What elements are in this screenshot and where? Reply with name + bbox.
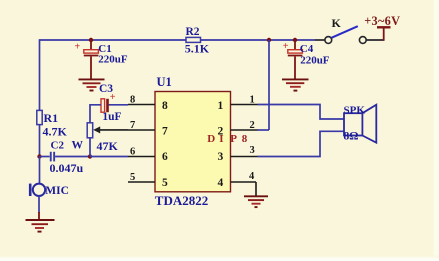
svg-text:1: 1: [250, 94, 255, 105]
svg-text:5: 5: [162, 177, 168, 189]
U1 pin 7 stub: [128, 120, 155, 131]
node C4 tap: [293, 38, 297, 42]
wire MIC to ground: [38, 196, 40, 213]
U1 pin 8 stub: [128, 94, 155, 105]
U1 internal pin numbers left: [162, 100, 168, 189]
svg-text:W: W: [72, 140, 84, 152]
U1 internal pin numbers right: [218, 100, 224, 189]
wire R1 to node C2: [39, 125, 41, 157]
svg-text:8: 8: [130, 94, 135, 105]
U1 pin 1 stub: [231, 94, 258, 105]
svg-text:P: P: [230, 133, 237, 145]
U1 pin 4 stub: [231, 171, 257, 182]
node pot bottom: [88, 154, 92, 158]
wire pin4 to ground: [255, 182, 257, 196]
svg-text:MIC: MIC: [45, 185, 69, 197]
wire pin1 to speaker: [258, 105, 345, 120]
svg-text:5.1K: 5.1K: [185, 41, 210, 55]
svg-text:C2: C2: [51, 139, 65, 151]
node C1 tap: [89, 38, 93, 42]
svg-text:K: K: [332, 16, 342, 30]
svg-text:47K: 47K: [97, 139, 119, 153]
ground below C1: [79, 79, 105, 90]
svg-text:220uF: 220uF: [98, 54, 128, 66]
svg-text:8Ω: 8Ω: [344, 131, 359, 143]
wire C3 to pot top: [90, 105, 101, 123]
capacitor C2: [40, 139, 84, 175]
U1 pin 6 stub: [128, 146, 155, 157]
svg-text:R1: R1: [44, 111, 59, 125]
U1 pin 3 stub: [231, 145, 258, 156]
speaker SPK: [344, 104, 377, 142]
svg-text:R2: R2: [186, 26, 200, 38]
resistor R2: [185, 26, 210, 55]
ground below MIC: [26, 212, 55, 232]
wire left rail: [39, 39, 41, 110]
svg-text:6: 6: [162, 151, 168, 163]
wire top rail right of R2: [201, 39, 316, 41]
svg-text:+: +: [75, 42, 81, 53]
svg-text:SPK: SPK: [344, 104, 366, 116]
wire pin2 horizontal: [258, 129, 270, 131]
svg-text:6: 6: [130, 146, 135, 157]
wire top rail left: [40, 39, 187, 41]
svg-text:0.047u: 0.047u: [50, 161, 84, 175]
svg-text:+3~6V: +3~6V: [364, 14, 400, 28]
switch K: [325, 16, 366, 43]
microphone MIC: [29, 184, 69, 198]
capacitor C4: [283, 40, 330, 79]
svg-text:5: 5: [130, 172, 135, 183]
svg-text:C3: C3: [99, 83, 113, 95]
svg-text:C4: C4: [300, 43, 314, 55]
svg-text:8: 8: [162, 100, 168, 112]
wire pin3 to speaker: [258, 131, 345, 156]
svg-text:220uF: 220uF: [300, 54, 330, 66]
svg-text:4: 4: [218, 177, 224, 189]
op-amp U1 TDA2822 body: [155, 75, 231, 208]
U1 pin 2 stub: [231, 120, 258, 131]
node R2 right / pin2 branch: [267, 38, 271, 42]
svg-text:4.7K: 4.7K: [43, 124, 68, 138]
svg-text:3: 3: [250, 145, 255, 156]
resistor R1: [37, 110, 68, 138]
svg-text:8: 8: [242, 133, 248, 145]
U1 label D I P 8: [207, 133, 248, 145]
svg-text:7: 7: [162, 125, 168, 137]
svg-text:2: 2: [218, 125, 224, 137]
capacitor C1: [75, 40, 128, 79]
node at C2 junction: [37, 154, 41, 158]
wire switch to power: [366, 39, 383, 41]
U1 pin 5 stub: [128, 172, 155, 183]
white margin right: [434, 0, 439, 261]
white margin bottom: [0, 256, 439, 261]
svg-text:D: D: [207, 133, 215, 145]
svg-text:1: 1: [218, 100, 224, 112]
ground below pin 4: [244, 196, 268, 207]
power +3~6V: [364, 14, 400, 41]
svg-text:4: 4: [249, 171, 255, 182]
capacitor C3: [99, 83, 128, 123]
svg-text:1uF: 1uF: [102, 111, 121, 123]
svg-text:7: 7: [130, 120, 135, 131]
svg-text:2: 2: [250, 120, 255, 131]
wire node to pin6: [90, 156, 128, 158]
svg-text:TDA2822: TDA2822: [155, 193, 208, 208]
wire C2 to pot node: [55, 156, 90, 158]
ground below C4: [282, 79, 309, 90]
svg-text:U1: U1: [157, 75, 172, 89]
wire pin2 vertical: [268, 40, 270, 130]
potentiometer W 47K: [72, 123, 129, 157]
wire MIC branch: [39, 157, 41, 184]
svg-text:3: 3: [218, 151, 224, 163]
